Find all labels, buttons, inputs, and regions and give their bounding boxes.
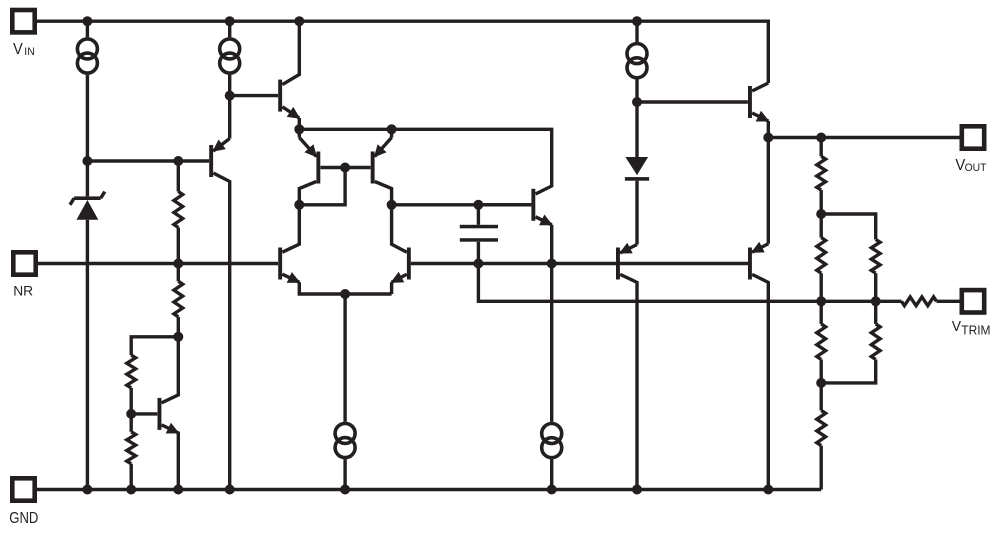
svg-text:V: V — [952, 319, 962, 336]
svg-text:TRIM: TRIM — [961, 323, 990, 338]
svg-text:IN: IN — [24, 46, 34, 58]
svg-text:GND: GND — [9, 510, 38, 527]
svg-text:NR: NR — [13, 282, 33, 298]
svg-text:OUT: OUT — [965, 163, 987, 174]
svg-text:V: V — [13, 41, 24, 59]
